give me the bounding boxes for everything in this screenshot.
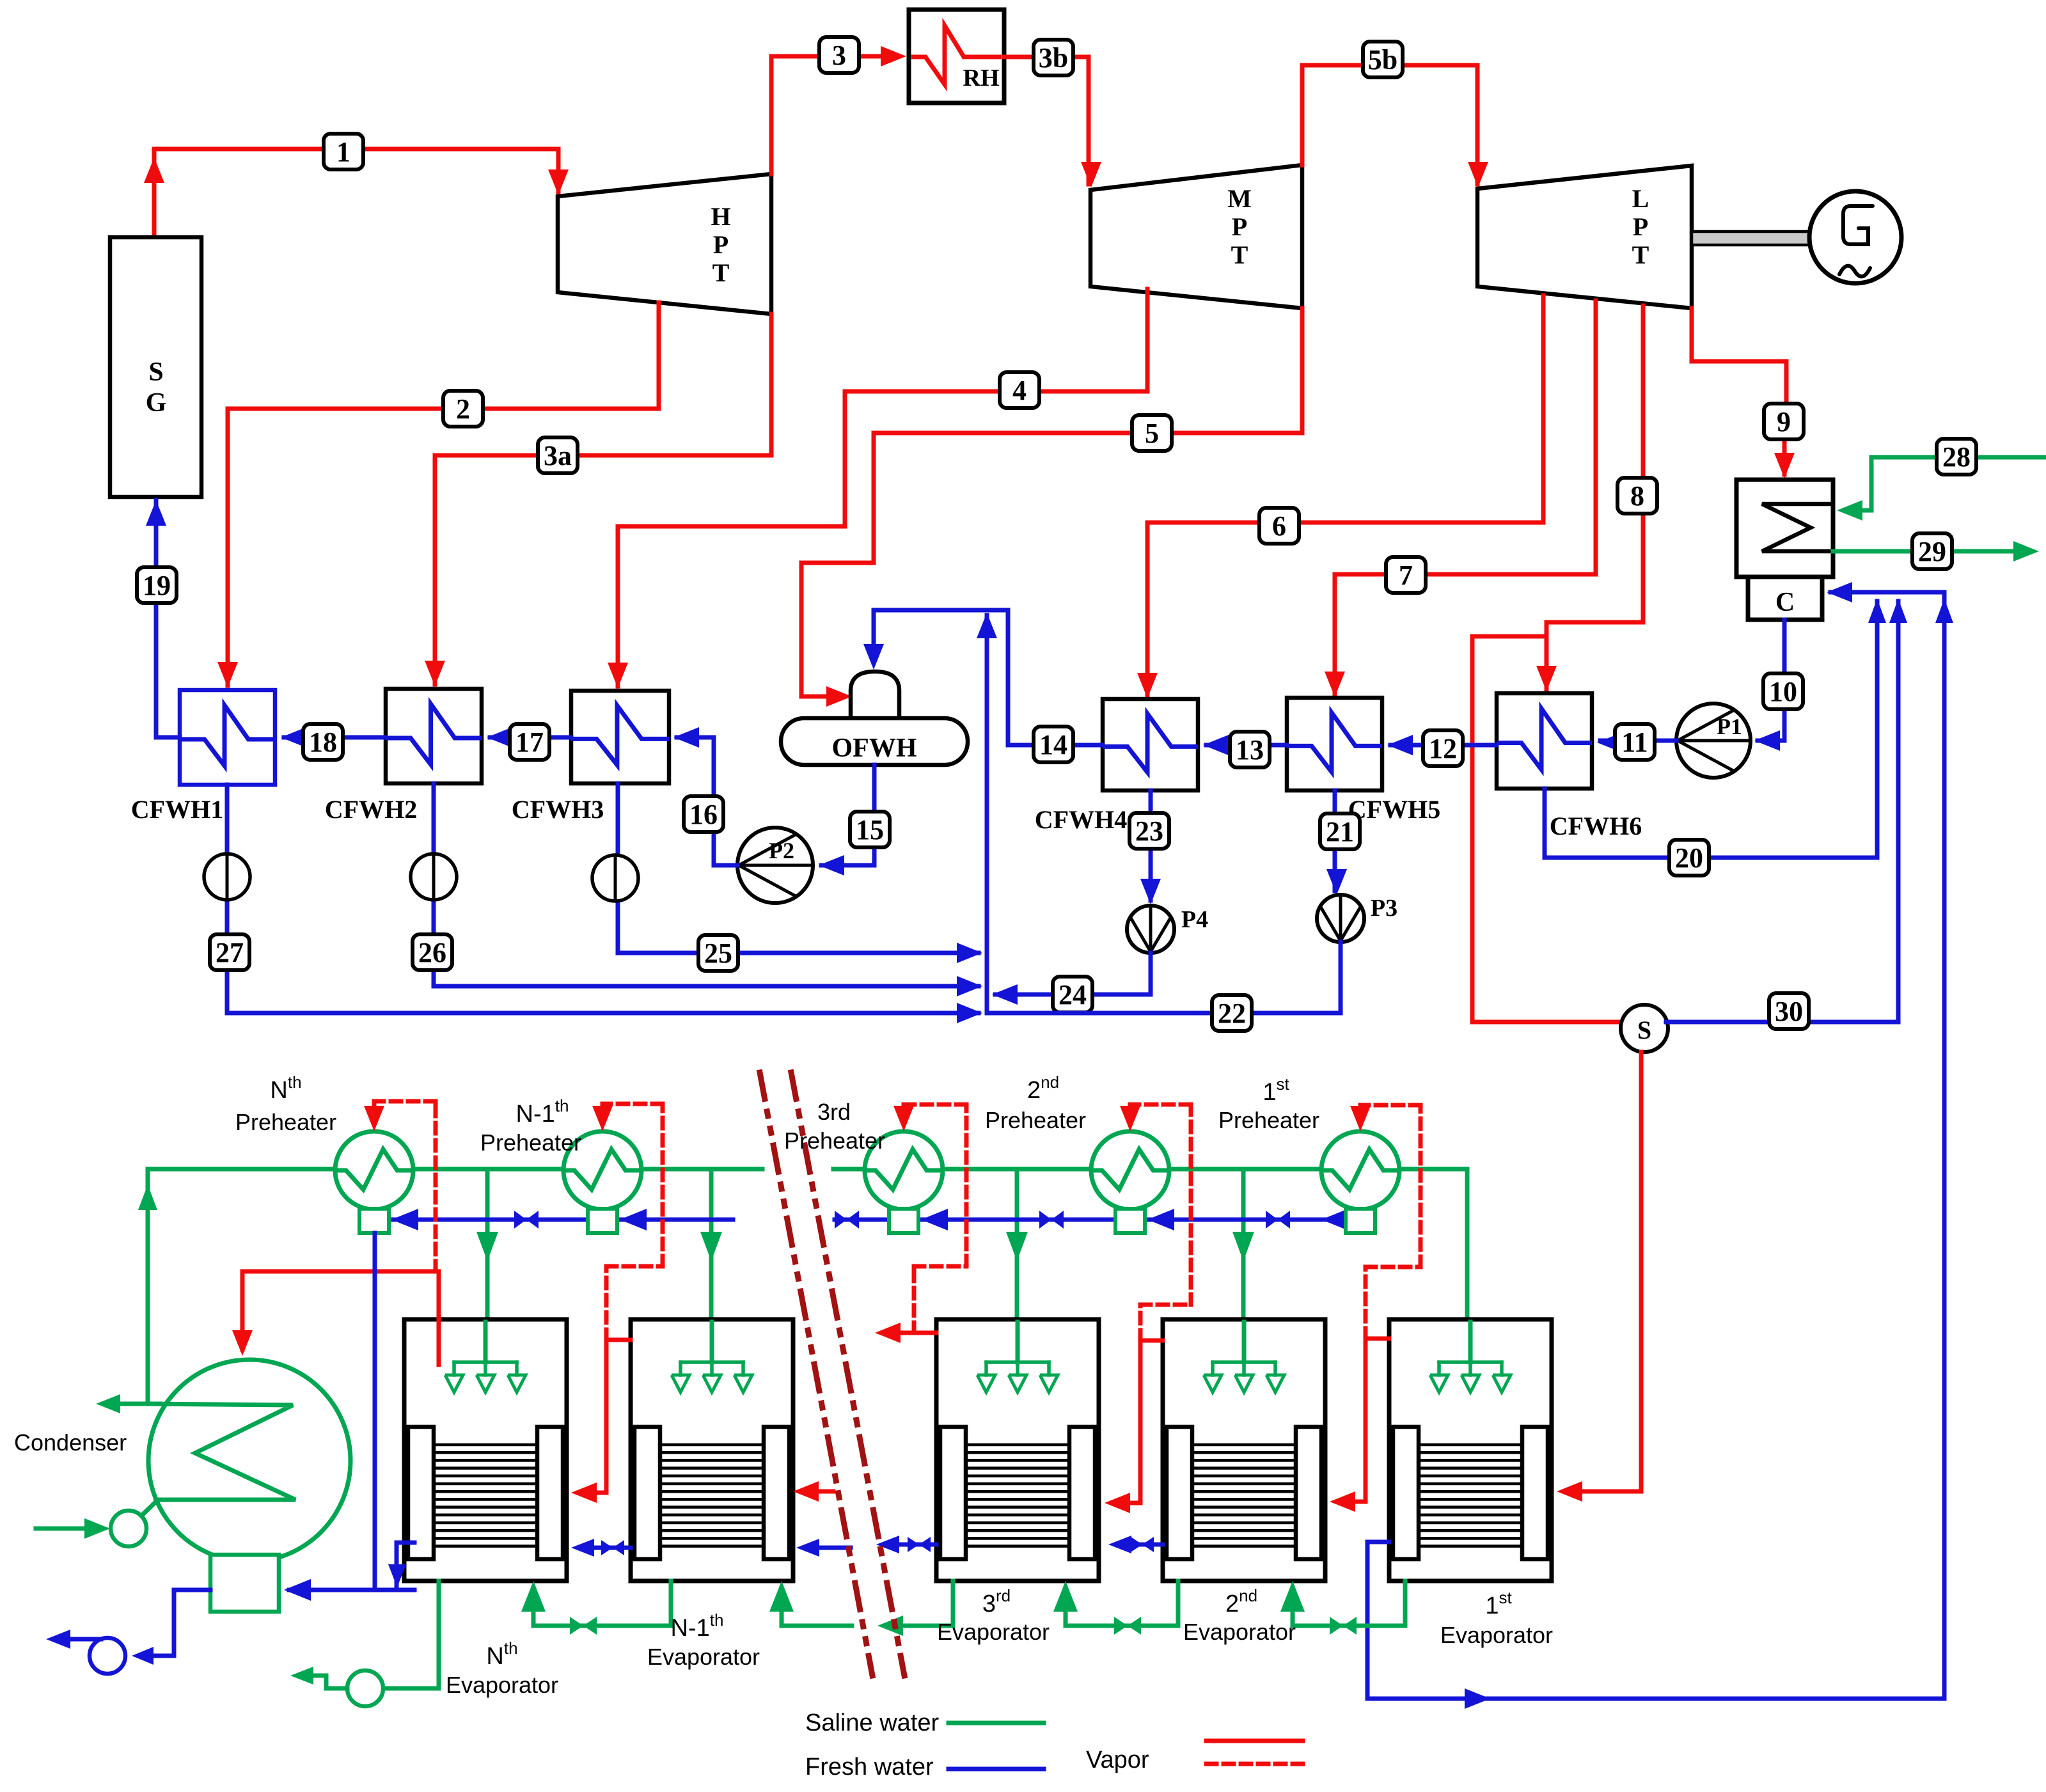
wire brine 2nd to 3rd evaporator [1053,1581,1178,1635]
wire stream 29 saline water out of condenser [1833,541,2039,562]
svg-text:S: S [148,358,163,387]
svg-text:21: 21 [1326,816,1354,847]
wire brine 1st to 2nd evaporator [1280,1581,1405,1635]
svg-text:30: 30 [1775,996,1803,1027]
wire stream 20 CFWH6 drain to condenser return [1545,601,1877,858]
vapor dashed 1st evaporator to 1st preheater [1350,1105,1420,1339]
generator G [1809,191,1901,283]
wire stream 7 LPT extraction to CFWH5 [1325,301,1596,697]
label 2nd Evaporator [1183,1586,1296,1645]
svg-text:11: 11 [1621,727,1648,758]
svg-text:3b: 3b [1039,42,1068,74]
svg-text:M: M [1227,184,1252,213]
feedwater heater CFWH6 [1497,693,1642,840]
feedwater heater CFWH3 [512,691,669,824]
svg-text:S: S [1637,1016,1651,1044]
svg-text:P: P [713,230,728,259]
svg-text:Preheater: Preheater [1218,1107,1319,1133]
turbine MPT [1090,165,1302,308]
evaporator N-1th [631,1319,793,1581]
wire stream 15 OFWH to pump P2 [819,765,874,876]
wire brine 3rd evaporator toward break [877,1581,953,1636]
preheater Nth [335,1131,413,1233]
wire stream 6 LPT extraction to CFWH4 [1137,295,1543,698]
wire stream 5 MPT exhaust to OFWH [801,308,1302,707]
svg-text:9: 9 [1777,406,1791,437]
fresh water header valve 4 [1266,1211,1278,1229]
svg-text:12: 12 [1429,733,1457,764]
open feedwater heater OFWH [781,672,968,765]
wire distillate from break to N-1th evaporator bundle [796,1539,851,1557]
node 7 [1386,557,1426,593]
wire vapor N-1th evaporator to Nth evaporator bundle [571,1340,606,1503]
reheater RH [909,10,1004,103]
evaporator 3rd [936,1319,1099,1581]
wire stream 25 CFWH3 drain [618,783,982,963]
wire stream 30 S to condenser return [1666,601,1898,1022]
wire drains collector riser to OFWH [977,613,997,1013]
svg-text:1: 1 [336,136,350,168]
node 10 [1763,673,1803,709]
brine blowdown pump [290,1667,383,1706]
label Nth Preheater [235,1073,336,1135]
svg-text:CFWH6: CFWH6 [1550,812,1642,840]
wire condensate 1st evaporator to condenser C return [1367,595,1944,1709]
pump P4 [1127,906,1208,953]
wire vapor Nth evaporator to condenser [232,1271,439,1356]
wire stream 5b MPT to LPT [1302,65,1488,187]
svg-text:3rd: 3rd [817,1099,851,1125]
svg-text:2: 2 [456,393,470,425]
wire saline feed branch to N-1th evaporator spray [700,1169,722,1362]
pump P1 [1676,703,1751,778]
wire vapor from break into N-1th evaporator bundle [793,1481,833,1502]
drain valve CFWH2 [411,854,457,900]
node 23 [1129,813,1169,849]
svg-text:Preheater: Preheater [985,1107,1086,1133]
wire stream 16 P2 to CFWH3 [673,727,737,865]
wire vapor 1st evaporator to 2nd evaporator bundle [1330,1339,1365,1512]
preheater N-1th [563,1131,641,1233]
feedwater heater CFWH4 [1035,699,1198,834]
wire vapor 2nd evaporator to 3rd evaporator bundle [1105,1340,1140,1513]
node 25 [698,935,738,971]
svg-text:Evaporator: Evaporator [647,1644,760,1670]
evaporator 1st [1389,1319,1552,1581]
wire vapor 3rd evaporator toward break [875,1323,914,1343]
node 3b [1034,40,1073,75]
generator shaft [1692,232,1809,245]
node 2 [443,391,483,427]
svg-text:4: 4 [1012,375,1027,406]
label 3rd Preheater [784,1099,885,1154]
svg-text:18: 18 [309,727,337,758]
label 1st Preheater [1218,1074,1319,1133]
svg-text:C: C [1775,588,1795,617]
svg-text:Preheater: Preheater [784,1128,885,1154]
steam generator SG [110,237,201,497]
label Nth Evaporator [446,1639,558,1698]
svg-text:20: 20 [1675,842,1703,874]
wire stream 9 LPT exhaust to condenser [1692,308,1795,478]
svg-text:15: 15 [856,814,884,845]
label N-1th Preheater [480,1096,581,1156]
wire brine from break to N-1th evaporator [769,1581,852,1626]
vapor dashed 2nd evaporator to 2nd preheater [1120,1104,1191,1340]
svg-text:14: 14 [1039,729,1067,760]
wire distillate Nth evaporator and Nth preheater to condenser hotwell [284,1233,414,1601]
wire brine Nth evaporator to blowdown pump [384,1581,439,1688]
svg-text:P: P [1232,212,1247,241]
pump P2 [737,828,813,903]
wire stream 27 CFWH1 drain [227,785,982,1023]
node 11 [1615,724,1655,760]
module break dash-dot lines [760,1073,904,1676]
preheater 3rd [865,1131,943,1233]
wire saline feed branch to 2nd evaporator spray [1232,1169,1254,1362]
preheater 1st [1321,1131,1399,1233]
svg-text:CFWH5: CFWH5 [1348,795,1440,824]
node 5 [1132,415,1172,451]
wire stream 22 P3 to collector [987,942,1341,1013]
svg-text:OFWH: OFWH [832,734,917,763]
feedwater heater CFWH2 [325,689,482,824]
wire stream 2 HPT extraction to CFWH1 [217,303,659,688]
node 29 [1912,533,1952,569]
node 19 [137,567,177,603]
wire brine N-1th to Nth evaporator [521,1581,671,1635]
node 3 [819,37,859,73]
label N-1th Evaporator [647,1610,760,1670]
svg-text:Fresh water: Fresh water [805,1754,934,1780]
svg-text:5b: 5b [1368,44,1397,75]
wire steam S to 1st evaporator [1557,1052,1641,1502]
vapor dashed Nth evaporator to Nth preheater [364,1101,439,1365]
wire stream 13 CFWH5 to CFWH4 [1203,735,1287,755]
wire stream 10 condenser to pump P1 [1754,620,1784,751]
svg-text:Saline water: Saline water [805,1709,939,1736]
svg-text:P3: P3 [1371,895,1397,922]
wire cooling reject out of MED condenser [96,1394,160,1413]
evaporator Nth [404,1319,567,1581]
svg-text:29: 29 [1918,536,1946,567]
vapor dashed 3rd evaporator to 3rd preheater [893,1104,966,1333]
svg-text:3a: 3a [544,440,572,471]
svg-text:T: T [712,258,730,287]
node 20 [1669,840,1709,876]
node 15 [850,812,890,847]
feedwater heater CFWH5 [1287,698,1440,824]
node 14 [1034,727,1073,762]
preheater 2nd [1091,1131,1169,1233]
pump P3 [1317,895,1397,942]
svg-text:T: T [1632,240,1649,269]
fresh water header valve 2 [835,1211,847,1229]
drain valve CFWH1 [204,854,250,900]
svg-text:Evaporator: Evaporator [446,1672,558,1698]
svg-text:Preheater: Preheater [480,1129,581,1156]
wire distillate 3rd evaporator toward break [876,1536,936,1553]
svg-text:24: 24 [1058,979,1087,1010]
wire stream 8 LPT extraction to CFWH6 and splitter S [1472,306,1643,1022]
wire saline feed branch to Nth evaporator spray [476,1169,498,1362]
wire stream 26 CFWH2 drain [434,783,982,996]
svg-text:Vapor: Vapor [1086,1747,1149,1773]
node 16 [684,796,723,832]
wire stream 19 CFWH1 to SG [146,500,180,737]
svg-text:CFWH3: CFWH3 [512,795,604,824]
label 2nd Preheater [985,1073,1086,1133]
node 21 [1320,813,1360,849]
node 28 [1937,439,1976,475]
wire stream 21 CFWH5 drain to P3 [1326,790,1347,895]
node 3a [538,437,578,473]
saline water header [138,1169,1467,1404]
node 6 [1259,508,1299,544]
MED condenser [148,1360,350,1612]
svg-text:10: 10 [1769,676,1797,707]
svg-text:26: 26 [418,937,446,968]
svg-text:P2: P2 [769,838,794,863]
svg-text:27: 27 [216,937,244,968]
feedwater heater CFWH1 [131,690,275,824]
svg-text:Evaporator: Evaporator [1183,1619,1296,1645]
svg-text:T: T [1231,240,1248,269]
label 3rd Evaporator [937,1586,1050,1645]
wire stream 18 CFWH2 to CFWH1 [281,727,386,748]
svg-text:H: H [711,202,730,231]
node 24 [1053,977,1092,1012]
node 26 [413,934,452,970]
svg-text:Evaporator: Evaporator [937,1619,1050,1645]
wire saline feed branch to 3rd evaporator spray [1006,1169,1028,1362]
svg-text:CFWH1: CFWH1 [131,795,223,824]
fresh water header valve 1 [514,1211,526,1229]
svg-text:CFWH2: CFWH2 [325,795,417,824]
wire stream 4 MPT extraction to OFWH [608,289,1147,688]
vapor dashed N-1th evaporator to N-1th preheater [592,1104,663,1340]
svg-text:17: 17 [515,727,544,758]
node 13 [1230,732,1270,767]
node 4 [1000,372,1039,408]
turbine LPT [1477,166,1692,308]
svg-text:22: 22 [1218,998,1246,1029]
svg-text:7: 7 [1399,560,1413,591]
svg-text:5: 5 [1145,418,1159,449]
wire stream 1 SG to HPT [144,149,569,238]
node 9 [1764,404,1804,439]
splitter S [1621,1005,1668,1052]
svg-text:G: G [146,388,167,418]
svg-text:23: 23 [1135,815,1163,847]
wire stream 14 CFWH4 to OFWH [863,610,1103,745]
node 5b [1363,42,1403,77]
wire stream 17 CFWH3 to CFWH2 [487,727,571,748]
fresh water header along preheaters [388,1209,1348,1230]
distillate product pump [46,1590,210,1674]
fresh water header valve 3 [1039,1211,1051,1229]
svg-text:Preheater: Preheater [235,1109,336,1135]
wire distillate N-1th evaporator to Nth evaporator bundle [571,1539,631,1557]
evaporator 2nd [1163,1319,1325,1581]
svg-text:19: 19 [143,570,171,601]
svg-text:P: P [1633,212,1648,241]
svg-text:13: 13 [1236,734,1264,766]
svg-text:Condenser: Condenser [14,1429,127,1456]
wire stream 11 P1 to CFWH6 [1597,732,1676,753]
wire stream 24 P4 to collector [992,953,1151,1005]
node 17 [510,724,549,760]
label 1st Evaporator [1440,1588,1553,1648]
wire stream 3 HPT to reheater [771,46,906,174]
svg-text:25: 25 [704,938,732,969]
node 18 [303,724,343,760]
wire stream 3b RH to MPT [1004,57,1101,187]
svg-text:CFWH4: CFWH4 [1035,805,1127,834]
svg-text:28: 28 [1942,441,1971,473]
wire stream 23 CFWH4 drain to P4 [1140,790,1161,904]
svg-text:3: 3 [832,40,846,71]
svg-text:RH: RH [963,65,1000,91]
wire stream 28 saline water into condenser [1837,457,2046,521]
svg-text:Evaporator: Evaporator [1440,1622,1553,1648]
wire stream 3a HPT exhaust to CFWH2 [425,314,771,686]
wire distillate 2nd evaporator to 3rd evaporator bundle [1108,1536,1163,1553]
wire condensate return header into C [1827,582,1953,623]
legend [805,1709,1303,1780]
svg-text:16: 16 [689,799,718,830]
svg-text:L: L [1632,184,1649,213]
node 8 [1617,478,1657,514]
svg-text:P1: P1 [1717,714,1742,739]
wire saline feed to 1st evaporator spray [1456,1169,1478,1362]
node 22 [1212,995,1252,1031]
node 12 [1423,730,1463,766]
turbine HPT [558,174,771,314]
condenser C [1736,480,1833,620]
drain valve CFWH3 [592,855,638,901]
wire stream 12 CFWH6 to CFWH5 [1387,735,1497,755]
svg-text:8: 8 [1630,480,1644,512]
node 1 [324,134,363,169]
seawater intake pump [36,1501,157,1546]
node 27 [210,934,249,970]
svg-text:P4: P4 [1181,906,1208,933]
node 30 [1769,993,1809,1029]
svg-text:6: 6 [1272,510,1286,542]
